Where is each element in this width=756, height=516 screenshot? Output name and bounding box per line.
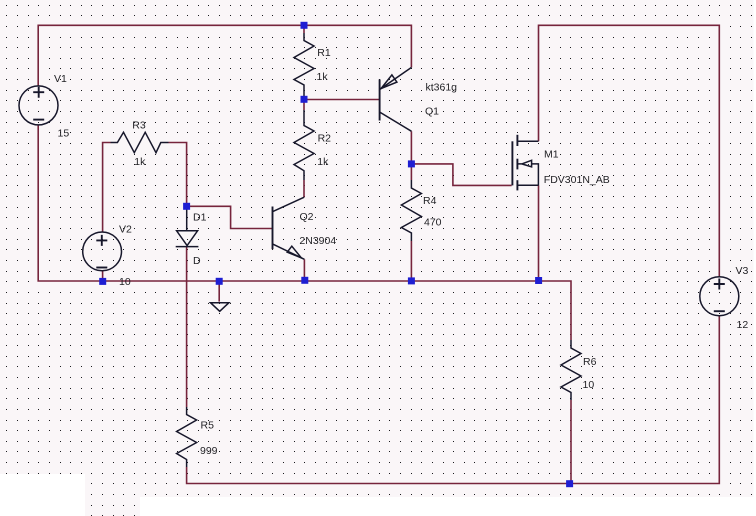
svg-text:999: 999: [200, 445, 218, 457]
svg-text:V2: V2: [119, 224, 132, 236]
svg-text:Q2: Q2: [300, 211, 314, 223]
svg-text:12: 12: [737, 319, 749, 331]
svg-text:R3: R3: [132, 119, 146, 131]
svg-text:R2: R2: [318, 132, 332, 144]
svg-text:10: 10: [119, 276, 131, 288]
svg-text:V3: V3: [736, 265, 749, 277]
svg-text:R5: R5: [201, 420, 215, 432]
svg-text:R1: R1: [317, 47, 331, 59]
svg-text:V1: V1: [54, 73, 67, 85]
svg-text:470: 470: [424, 217, 442, 229]
svg-text:R4: R4: [423, 195, 437, 207]
svg-text:2N3904: 2N3904: [299, 235, 336, 247]
svg-text:Q1: Q1: [425, 106, 439, 118]
svg-text:1k: 1k: [134, 156, 146, 168]
svg-text:15: 15: [58, 128, 70, 140]
svg-text:10: 10: [583, 379, 595, 391]
svg-text:1k: 1k: [317, 156, 329, 168]
svg-text:D: D: [193, 255, 201, 267]
svg-text:kt361g: kt361g: [426, 82, 458, 94]
svg-text:R6: R6: [583, 356, 597, 368]
svg-text:M1: M1: [544, 149, 559, 161]
svg-text:1k: 1k: [317, 71, 329, 83]
svg-text:FDV301N_AB: FDV301N_AB: [544, 174, 610, 186]
svg-text:D1: D1: [193, 211, 207, 223]
